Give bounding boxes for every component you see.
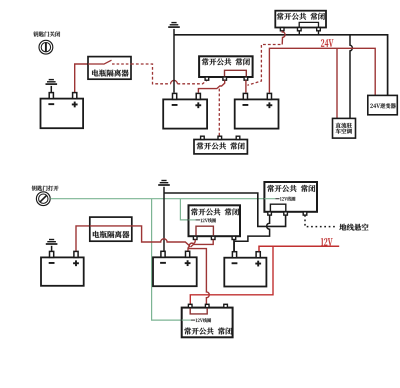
battery B1 plus sign [72, 102, 78, 108]
wire relay U5 third terminal to battery B6 negative [233, 240, 235, 252]
label relay U6 12V线圈 [280, 197, 295, 201]
label relay U1 常开公共 常闭 [277, 13, 325, 20]
wire (dashed red) isolator K1 output to relay U2 NO terminal [131, 64, 207, 84]
battery B2 minus sign [172, 104, 178, 106]
battery B2 body [163, 99, 207, 128]
relay U1 box 常开公共 常闭 [275, 11, 326, 28]
wire relay U6 third terminal dotted (floating ground) [305, 215, 337, 227]
wire key switch SW2 to relay coils (green, ignition 12V) [50, 198, 264, 200]
label 钥匙门打开 [32, 186, 59, 191]
wire battery B1 positive to isolator K1 (red) [75, 64, 88, 93]
battery B4 minus sign [49, 262, 55, 264]
battery B5 negative terminal [161, 251, 165, 257]
battery B4 negative terminal [50, 251, 54, 257]
battery B5 minus sign [160, 262, 166, 264]
battery B3 body [235, 99, 279, 128]
wire ground bus (bottom diagram) to relay U6 coil [164, 193, 286, 226]
relay U2 box 常开公共 常闭 [199, 56, 253, 77]
wire 12V branch down and left to relay U7 coil left terminal (red) [190, 246, 273, 304]
switch contact inside K1 (open) [88, 60, 131, 64]
wire relay U1 COM to ground bus [298, 31, 300, 35]
relay U1 terminals (NO COM NC) [280, 28, 320, 31]
battery B4 plus sign [73, 260, 79, 266]
battery B6 negative terminal [232, 252, 236, 258]
battery B4 body [41, 257, 84, 285]
battery B1 minus sign [48, 103, 54, 105]
wire green branch down to relay U5 coil label [180, 199, 200, 220]
label 车空调 [336, 129, 352, 134]
battery B6 minus sign [232, 262, 238, 264]
ground symbol GND3 [158, 181, 170, 186]
wire relay U5 coil left terminal to battery B5 positive (red) [188, 240, 195, 252]
switch contact inside K2 (closed, red wire through) [90, 225, 132, 227]
label 直流驻 [336, 123, 352, 128]
label relay U5 常开公共 常闭 [191, 208, 239, 215]
wire ground GND1 to battery B1 negative [50, 86, 52, 93]
battery B5 body [153, 257, 197, 286]
relay U2 coil outline [225, 70, 247, 77]
wire (dashed red) down to relay U3 COM [218, 89, 220, 137]
wire label line to 12V线圈 (U5) [189, 219, 196, 221]
battery B1 positive terminal [73, 93, 77, 99]
wire battery B4 positive to isolator K2 (red) [76, 226, 90, 251]
relay U1 coil outline [299, 22, 318, 27]
label 电瓶隔离器 (K1) [92, 70, 129, 77]
battery B5 plus sign [185, 260, 191, 266]
battery B6 positive terminal [256, 252, 260, 258]
label relay U5 12V线圈 [201, 218, 216, 222]
wire battery B6 positive 12V line (red) [259, 246, 339, 251]
label relay U3 常开公共 常闭 [197, 142, 245, 149]
label 24V [321, 39, 333, 47]
relay U5 terminals below [193, 236, 235, 239]
key switch SW1 (key off) [39, 40, 53, 54]
battery B6 body [224, 258, 266, 287]
wire ground GND4 to battery B4 negative [51, 246, 53, 251]
wire relay U1 NC to ground bus [318, 31, 320, 35]
label relay U7 12V线圈 [196, 318, 211, 322]
wire relay U5 coil right terminal joining junction (red) [191, 240, 214, 248]
wire green branch down to relay U7 coil label [152, 199, 196, 320]
wire battery B5 positive junction to relay U7 coil (red, hops 12V branch) [188, 249, 209, 305]
key switch SW2 (key on) [36, 192, 50, 206]
relay U7 coil outline [190, 308, 207, 314]
wire relay U2 NC to battery B3 negative (red) [245, 80, 247, 92]
battery isolator K1 box 电瓶隔离器 [88, 57, 131, 80]
battery B1 negative terminal [49, 93, 53, 99]
wire relay U1 NO terminal (red, hops bus then dashed to battery B3 negative wire) [282, 31, 285, 45]
relay U7 terminals on top [188, 304, 227, 307]
ground symbol GND2 [168, 23, 180, 28]
wire chassis ground bus (top) [174, 35, 388, 96]
ground symbol GND4 [46, 240, 58, 245]
relay U6 box 常开公共 常闭 [264, 182, 317, 212]
wire ground GND3 down to battery B5 negative [163, 187, 165, 252]
battery B3 minus sign [243, 104, 249, 106]
wire label line to 12V线圈 (U6) [264, 198, 275, 200]
label 24V逆变器 [370, 103, 395, 108]
battery B3 negative terminal [243, 93, 247, 99]
wire red branch to air conditioner [336, 48, 338, 118]
wire relay U6 coil left terminal to battery B6 negative (hops ground wire) [234, 215, 269, 251]
label relay U2 常开公共 常闭 [202, 58, 250, 65]
wire isolator K2 output to battery B5 positive junction (red, hops ground stem) [132, 226, 190, 247]
battery B2 plus sign [195, 102, 201, 108]
wire label line to 12V线圈 (U7) [182, 319, 191, 321]
label 12V [321, 238, 333, 246]
battery B3 plus sign [267, 102, 273, 108]
ground symbol GND1 [46, 80, 58, 85]
relay U3 box 常开公共 常闭 [194, 140, 247, 154]
wire relay U2 COM to battery B2 positive (red) [198, 80, 224, 92]
relay U3 terminals on top [201, 136, 240, 139]
battery B3 positive terminal [267, 93, 271, 99]
relay U6 coil outline [270, 204, 285, 212]
DC parking air conditioner box 直流驻车空调 [333, 118, 356, 138]
wire battery B3 positive to 24V loads (red) [269, 48, 375, 95]
wire hop over ground stem [171, 80, 178, 83]
battery B5 positive terminal [186, 251, 190, 257]
battery B2 positive terminal [196, 93, 200, 99]
24V inverter box 24V逆变器 [368, 95, 398, 114]
relay U7 box 常开公共 常闭 [182, 308, 233, 338]
label relay U7 常开公共 常闭 [184, 327, 232, 334]
label 地线悬空 [339, 224, 368, 231]
battery B4 positive terminal [74, 251, 78, 257]
battery B2 negative terminal [173, 93, 177, 99]
relay U5 box 常开公共 常闭 [189, 205, 241, 236]
relay U6 terminals below [268, 212, 307, 215]
label relay U6 常开公共 常闭 [267, 185, 315, 192]
wire black branch to air conditioner (hops over 24V line) [350, 35, 352, 119]
wire green into relay U6 coil label [264, 198, 279, 200]
label 钥匙门关闭 [33, 31, 60, 36]
label 电瓶隔离器 (K2) [93, 231, 130, 238]
relay U5 coil outline [196, 226, 213, 236]
battery isolator K2 box 电瓶隔离器 [90, 217, 132, 241]
wire ground GND2 / chassis bus down to battery B2 negative [173, 29, 175, 93]
battery B1 body [41, 99, 84, 129]
battery B6 plus sign [255, 261, 261, 267]
relay U2 terminals (NO COM NC) [205, 77, 248, 80]
